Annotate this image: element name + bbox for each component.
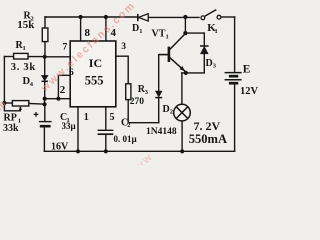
wire node A to node B stub: [44, 99, 46, 105]
wire lamp bottom lead: [181, 121, 183, 151]
svg-text:3: 3: [121, 42, 126, 52]
svg-text:12V: 12V: [240, 86, 258, 97]
svg-text:1: 1: [139, 28, 142, 35]
wire bottom ground rail: [44, 150, 234, 152]
svg-text:D: D: [132, 23, 139, 34]
svg-text:1: 1: [215, 28, 218, 35]
wire C1 bottom lead to rail corner: [43, 126, 45, 151]
svg-text:D: D: [206, 58, 213, 69]
svg-text:1: 1: [84, 112, 89, 123]
capacitor C1 plus sign: [34, 112, 39, 117]
svg-text:1: 1: [166, 34, 169, 41]
svg-text:2: 2: [60, 84, 66, 96]
svg-text:550mA: 550mA: [189, 132, 227, 146]
svg-text:IC: IC: [89, 56, 102, 70]
capacitor C2 plates: [98, 130, 114, 134]
wire R2 top to rail: [45, 17, 46, 28]
wire right column bottom (battery - to rail): [234, 83, 236, 151]
wire D4 top lead: [44, 57, 46, 76]
svg-text:2: 2: [127, 122, 130, 129]
resistor R3 body: [126, 84, 131, 100]
wire K1 right to corner: [221, 16, 235, 18]
wire D3 top lead: [203, 33, 205, 46]
svg-text:1: 1: [23, 45, 26, 52]
svg-text:555: 555: [85, 74, 104, 88]
capacitor C1 electrolytic plates: [39, 122, 52, 127]
wire D3 bottom lead: [203, 54, 205, 73]
wire R1 left to left rail: [4, 56, 13, 58]
svg-text:16V: 16V: [51, 142, 69, 153]
svg-text:3. 3k: 3. 3k: [11, 62, 36, 73]
wire R3 bottom lead: [127, 100, 129, 123]
wire pin6 left then down to pin2 wire: [58, 75, 70, 98]
wire lamp top lead: [181, 73, 183, 104]
svg-text:0. 01µ: 0. 01µ: [114, 134, 138, 144]
wire pin5 to C2 top: [105, 107, 107, 130]
wire D4 bottom lead to node A: [44, 81, 46, 98]
wire top rail middle segment (D1 to collector node to K1): [148, 16, 199, 18]
wire C1 top lead: [44, 104, 46, 121]
wire R1 right to node X: [28, 56, 45, 58]
svg-text:270: 270: [130, 97, 145, 107]
wire left rail: [3, 57, 5, 104]
wire RP1 left to left rail node: [4, 102, 12, 104]
svg-text:7: 7: [63, 42, 68, 52]
wire emitter node horizontal: [182, 72, 205, 74]
IC 555 box: [70, 41, 116, 107]
wire pin7 to node X: [45, 56, 70, 58]
wire RP1 wiper arm: [4, 103, 20, 111]
svg-text:ww: ww: [132, 150, 156, 165]
resistor R2 body: [42, 28, 48, 42]
wire C2 bottom to rail: [105, 135, 107, 152]
wire top rail left segment: [45, 16, 138, 18]
wire collector node vertical: [184, 17, 186, 33]
wire bottom link R3 to D2: [128, 122, 159, 124]
diode D4 (triangle down + bar): [42, 75, 49, 81]
wire pin3 out and down to R3: [116, 56, 128, 84]
wire RP1 right to node B: [29, 102, 45, 105]
junction node dots: [2, 15, 188, 154]
svg-text:1N4148: 1N4148: [146, 127, 177, 137]
wire D2 anode up and right to base: [159, 55, 168, 91]
svg-text:2: 2: [170, 109, 173, 116]
diode D2 (triangle down + bar): [155, 91, 162, 98]
lamp (circle with X) 7.2V 550mA: [174, 104, 191, 121]
svg-text:3: 3: [145, 89, 149, 96]
wire pin2 to node A: [45, 98, 70, 100]
transistor VT1: [159, 33, 186, 71]
svg-text:E: E: [243, 63, 251, 75]
svg-text:5: 5: [110, 112, 115, 123]
svg-text:4: 4: [30, 81, 34, 88]
svg-text:VT: VT: [152, 29, 166, 40]
svg-text:D: D: [163, 104, 170, 115]
wire D2 cathode lead down: [158, 98, 160, 123]
diode D3 (bar on top, triangle pointing up): [200, 46, 209, 54]
svg-text:15k: 15k: [17, 19, 35, 31]
svg-text:33µ: 33µ: [62, 121, 77, 131]
wire R2 bottom to node X: [44, 41, 46, 56]
wire right column top (corner to battery +): [234, 17, 236, 72]
potentiometer RP1 body: [12, 101, 28, 106]
battery E plates: [225, 73, 242, 84]
switch K1: [201, 10, 221, 20]
wire pin1 vertical to rail: [77, 107, 79, 152]
wire pin4 vertical: [105, 17, 107, 41]
svg-text:33k: 33k: [3, 123, 19, 134]
potentiometer RP1 wiper arrowhead: [19, 106, 22, 110]
diode D1 (open triangle pointing left + bar): [138, 14, 148, 22]
wire collector node to D3 top: [185, 32, 204, 34]
wire pin8 vertical: [80, 17, 82, 41]
resistor R1 body: [14, 53, 28, 59]
svg-text:3: 3: [213, 63, 217, 70]
